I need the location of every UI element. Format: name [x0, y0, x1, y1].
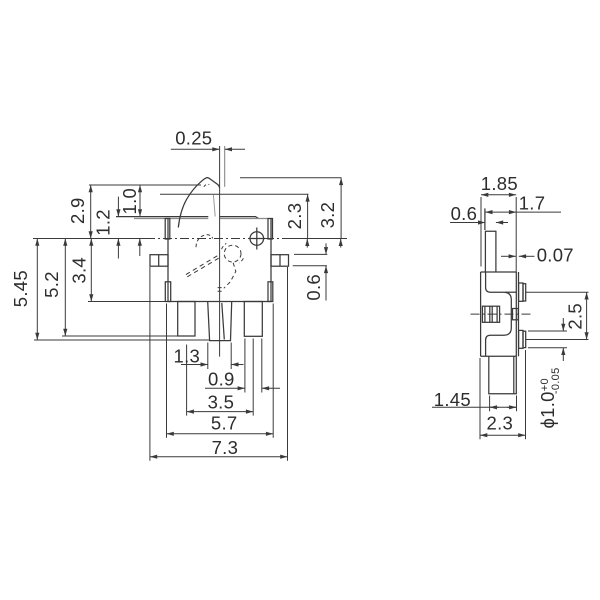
dim 5.45 line [36, 239, 38, 341]
dim 1.85 ext left [480, 197, 482, 267]
side interior channel [486, 272, 512, 356]
dim 0.6 right arrow bottom [325, 266, 327, 301]
dim 0.9 ext right [261, 339, 263, 393]
dim 5.7 line [167, 433, 274, 435]
dim 2.3 line [307, 194, 309, 238]
center pin [208, 302, 232, 341]
left pin [178, 302, 195, 337]
side lever blade [485, 231, 496, 272]
dim 1.85 line [481, 194, 516, 196]
dim 0.6 side leader [450, 222, 485, 224]
dim 2.9 line [90, 185, 92, 239]
svg-text:0.9: 0.9 [208, 368, 235, 389]
dim 0.07 arrow left [501, 255, 516, 257]
svg-text:3.5: 3.5 [208, 391, 235, 412]
dim 1.85 ext right [515, 197, 517, 272]
cover tab top-left [165, 219, 170, 240]
svg-text:2.9: 2.9 [67, 197, 88, 224]
dim 0.6 right ext top [294, 253, 327, 255]
svg-text:1.3: 1.3 [173, 346, 200, 367]
lever hidden dash arc [204, 184, 210, 186]
hidden spring arm line2 [184, 258, 218, 278]
pivot hole crosshair [249, 228, 266, 250]
body bottom edge [168, 301, 271, 303]
cover top plate upper line [116, 217, 259, 219]
dim 0.25 ext line right [224, 146, 226, 187]
dim 5.2 line [64, 239, 66, 337]
centerline front view [33, 238, 146, 240]
dim 2.5 ext top [526, 291, 589, 293]
dim 5.7 ext left [166, 304, 168, 438]
svg-text:7.3: 7.3 [212, 437, 239, 458]
side lever tip face [484, 208, 486, 230]
side body bottom edge [481, 355, 517, 357]
svg-text:1.85: 1.85 [481, 173, 518, 194]
ext line center pin bottom y340 [34, 339, 209, 341]
dim 5.7 ext right [272, 304, 274, 438]
dim 0.6 right ext bottom [293, 265, 327, 267]
ext line pins bottom y336 [62, 335, 195, 337]
dim phi arrow top [562, 318, 564, 331]
cover tab bottom-right [268, 282, 273, 302]
dim 2.3 side ext right [525, 350, 527, 439]
svg-text:1.7: 1.7 [519, 192, 546, 213]
centerline side view [471, 313, 534, 315]
side clip box [482, 306, 499, 322]
svg-text:5.2: 5.2 [41, 271, 62, 298]
ext line y194.3 [160, 193, 309, 195]
side bump left [150, 255, 168, 267]
dim 1.7 tail [516, 211, 561, 213]
svg-text:1.45: 1.45 [434, 389, 471, 410]
lever hidden edge [213, 195, 215, 217]
dim 1.45 leader [432, 406, 517, 408]
body right edge [270, 219, 272, 302]
dim 1.3 ext right [230, 343, 232, 370]
dim 0.25 arrow left [171, 148, 220, 150]
dim 3.5 line [187, 411, 254, 413]
svg-text:3.4: 3.4 [68, 257, 89, 284]
side foot inner edge [513, 356, 515, 394]
ext line y177.8 [240, 177, 342, 179]
dim 1.3 ext left [207, 343, 209, 370]
dim 3.2 extra arrow [340, 239, 342, 248]
svg-text:0.6: 0.6 [451, 203, 478, 224]
hidden contact hook [196, 235, 213, 248]
dim phi arrow bottom [562, 348, 564, 361]
side bump right divider [279, 255, 281, 267]
dim 0.6 side arrow right [496, 222, 508, 224]
boss upper stem [519, 283, 523, 301]
dim 0.9 ext left [244, 339, 246, 393]
lever arc [178, 178, 219, 228]
right pin [244, 302, 262, 337]
cover tab bottom-left [165, 282, 170, 302]
body left edge [167, 219, 169, 302]
side body front face line2 [518, 272, 520, 356]
dim 3.5 ext right [252, 339, 254, 416]
side body top edge [481, 271, 517, 273]
pivot hole circle [250, 232, 264, 246]
dim 0.9 arrow left [205, 387, 245, 389]
boss upper cap [523, 284, 526, 301]
svg-text:5.7: 5.7 [211, 412, 238, 433]
svg-text:1.0: 1.0 [119, 188, 140, 215]
dim 0.6 right arrow top [325, 243, 327, 254]
boss lower stem [519, 330, 523, 348]
dim 1.45 ext right [516, 396, 518, 412]
hidden lower squiggle [224, 263, 236, 289]
svg-text:2.3: 2.3 [486, 413, 513, 434]
dim 2.3 side ext left [479, 358, 481, 439]
dim phi ext top [528, 330, 567, 332]
side body back face [480, 272, 482, 356]
hidden coil outer arc upper [222, 243, 227, 249]
svg-text:ϕ1.0+0-0.05: ϕ1.0+0-0.05 [537, 367, 562, 428]
svg-text:5.45: 5.45 [10, 270, 31, 307]
dim 0.07 arrow right [519, 255, 535, 257]
hidden tick marks [218, 288, 222, 292]
SIDE VIEW [471, 208, 534, 393]
hidden coil outer arc lower [239, 258, 243, 263]
svg-text:2.3: 2.3 [284, 203, 305, 230]
hidden coil circle [224, 245, 241, 262]
dim 0.9 arrow right [262, 387, 280, 389]
dim 7.3 ext right [287, 267, 289, 461]
dim 7.3 line [150, 456, 288, 458]
dim 1.45 arrow left [490, 406, 499, 408]
side body front face line1 [515, 272, 517, 356]
svg-text:3.2: 3.2 [317, 202, 338, 229]
dim 3.4 line [90, 239, 92, 302]
center axis vertical [219, 146, 221, 357]
svg-text:0.6: 0.6 [303, 274, 324, 301]
dim 3.2 line [340, 178, 342, 239]
dim 2.3 extra arrow [306, 239, 308, 248]
svg-text:0.07: 0.07 [537, 245, 574, 266]
dim 1.0 extra arrow [139, 239, 141, 257]
dim 0.25 arrow right [225, 148, 245, 150]
dim 1.45 ext left [489, 396, 491, 412]
center pin inner edge [222, 303, 225, 340]
dim 1.2 arrow top [117, 197, 119, 217]
dim 7.3 ext left [149, 267, 151, 461]
dim 1.45 arrow right [507, 406, 516, 408]
side foot [489, 356, 517, 394]
side bump right [271, 255, 289, 267]
boss lower cap [523, 331, 526, 347]
dim 2.5 ext bottom [526, 339, 589, 341]
dim 3.5 ext left [186, 345, 188, 416]
cover top plate lower line [134, 218, 269, 220]
hidden spring arm line1 [183, 256, 217, 276]
dim 2.3 side line [480, 434, 526, 436]
svg-text:2.5: 2.5 [565, 303, 586, 330]
dim phi ext bottom [528, 347, 567, 349]
ext line y185 [89, 184, 201, 186]
side interior shelf [505, 291, 516, 293]
dim 1.2 arrow bottom [117, 239, 119, 259]
ext line body bottom left [88, 301, 168, 303]
cover tab top-right [268, 219, 273, 240]
dim 1.3 arrow left [181, 364, 208, 366]
dim 1.0 line [139, 185, 141, 217]
label phi 1.0 [537, 367, 562, 428]
side clip box lines [485, 306, 497, 322]
svg-text:1.2: 1.2 [93, 209, 114, 236]
dim 2.5 line [586, 292, 588, 339]
dim 1.7 line [485, 211, 516, 213]
side bump left divider [158, 255, 160, 267]
side terminal sq [513, 309, 519, 320]
dim 1.3 arrow right [231, 364, 243, 366]
svg-text:0.25: 0.25 [175, 128, 212, 149]
